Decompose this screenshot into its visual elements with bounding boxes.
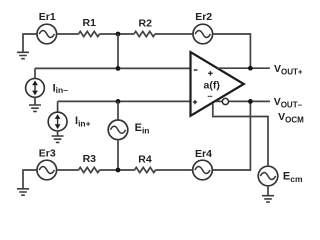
voltage source Er4 <box>193 160 213 180</box>
node non-inverting input <box>116 99 121 104</box>
op-amp output polarity + <box>208 71 212 75</box>
ground (Er3) <box>17 189 29 195</box>
voltage source Er2 <box>193 24 213 44</box>
wire Er2 down to VOUT+ node <box>213 34 251 68</box>
svg-text:a(f): a(f) <box>204 79 220 91</box>
svg-text:Ecm: Ecm <box>283 171 303 184</box>
op-amp U1 triangle <box>191 52 244 116</box>
ground (Er1) <box>17 52 29 58</box>
svg-text:R1: R1 <box>83 17 97 29</box>
voltage source Er3 <box>37 160 57 180</box>
wire top row left: ground to Er1 <box>23 34 37 52</box>
wire Er3 to R3 <box>57 169 79 171</box>
svg-text:VOUT+: VOUT+ <box>274 63 303 77</box>
ground (Iin+) <box>52 136 64 142</box>
node B junction R3/R4 <box>116 168 121 173</box>
wire Ein bottom to node B <box>117 140 119 170</box>
ground (Ecm) <box>262 196 274 202</box>
svg-text:Er2: Er2 <box>195 11 212 23</box>
svg-text:Er1: Er1 <box>39 11 56 23</box>
resistor R4 <box>135 167 156 172</box>
svg-text:Iin–: Iin– <box>53 83 69 95</box>
wire R3 to node B <box>100 169 135 171</box>
voltage source Ecm <box>258 166 278 186</box>
node A junction R1/R2 <box>116 32 121 37</box>
node VOUT+ <box>248 66 253 71</box>
wire inverting input <box>35 67 191 69</box>
wire R1 to node A <box>100 33 135 35</box>
svg-text:R2: R2 <box>139 17 153 29</box>
wire Ein top <box>117 101 119 120</box>
wire VOCM from op-amp to Ecm <box>213 104 268 167</box>
resistor R2 <box>134 31 155 36</box>
svg-text:Er4: Er4 <box>195 148 212 160</box>
wire Iin+ to ground <box>57 131 59 136</box>
resistor R1 <box>79 31 100 36</box>
wire R4 to Er4 <box>156 169 193 171</box>
wire Iin+ up to input wire <box>57 101 59 112</box>
wire Er1 to R1 <box>57 33 79 35</box>
node inverting input <box>116 66 121 71</box>
svg-text:VOUT–: VOUT– <box>274 96 303 110</box>
svg-text:R3: R3 <box>83 153 97 165</box>
op-amp output polarity - <box>208 95 213 97</box>
resistor R3 <box>79 167 100 172</box>
wire Er4 up to VOUT- node <box>212 101 250 170</box>
wire R2 to Er2 <box>155 33 193 35</box>
op-amp inverting input marker <box>194 69 198 71</box>
wire VOUT+ output <box>218 67 270 69</box>
voltage source Ein <box>108 120 128 140</box>
wire bottom row left: ground to Er3 <box>23 170 37 188</box>
ground (Iin-) <box>29 105 41 111</box>
op-amp non-inverting input marker <box>193 100 197 104</box>
svg-text:R4: R4 <box>138 154 152 166</box>
wire Iin- to ground <box>34 97 36 104</box>
voltage source Er1 <box>37 24 57 44</box>
svg-text:VOCM: VOCM <box>278 111 304 125</box>
wire VOUT- output <box>216 100 270 102</box>
current source Iin- <box>26 79 45 98</box>
svg-text:Ein: Ein <box>135 122 150 135</box>
inverting output bubble <box>222 98 228 104</box>
svg-text:Er3: Er3 <box>39 148 56 160</box>
wire node A down to inverting input <box>117 34 119 68</box>
wire Iin- to input wire <box>34 68 36 78</box>
wire Ecm to ground <box>267 186 269 195</box>
svg-text:Iin+: Iin+ <box>75 115 91 128</box>
wire non-inverting input <box>58 100 191 102</box>
node VOUT- <box>248 99 253 104</box>
current source Iin+ <box>48 112 67 131</box>
